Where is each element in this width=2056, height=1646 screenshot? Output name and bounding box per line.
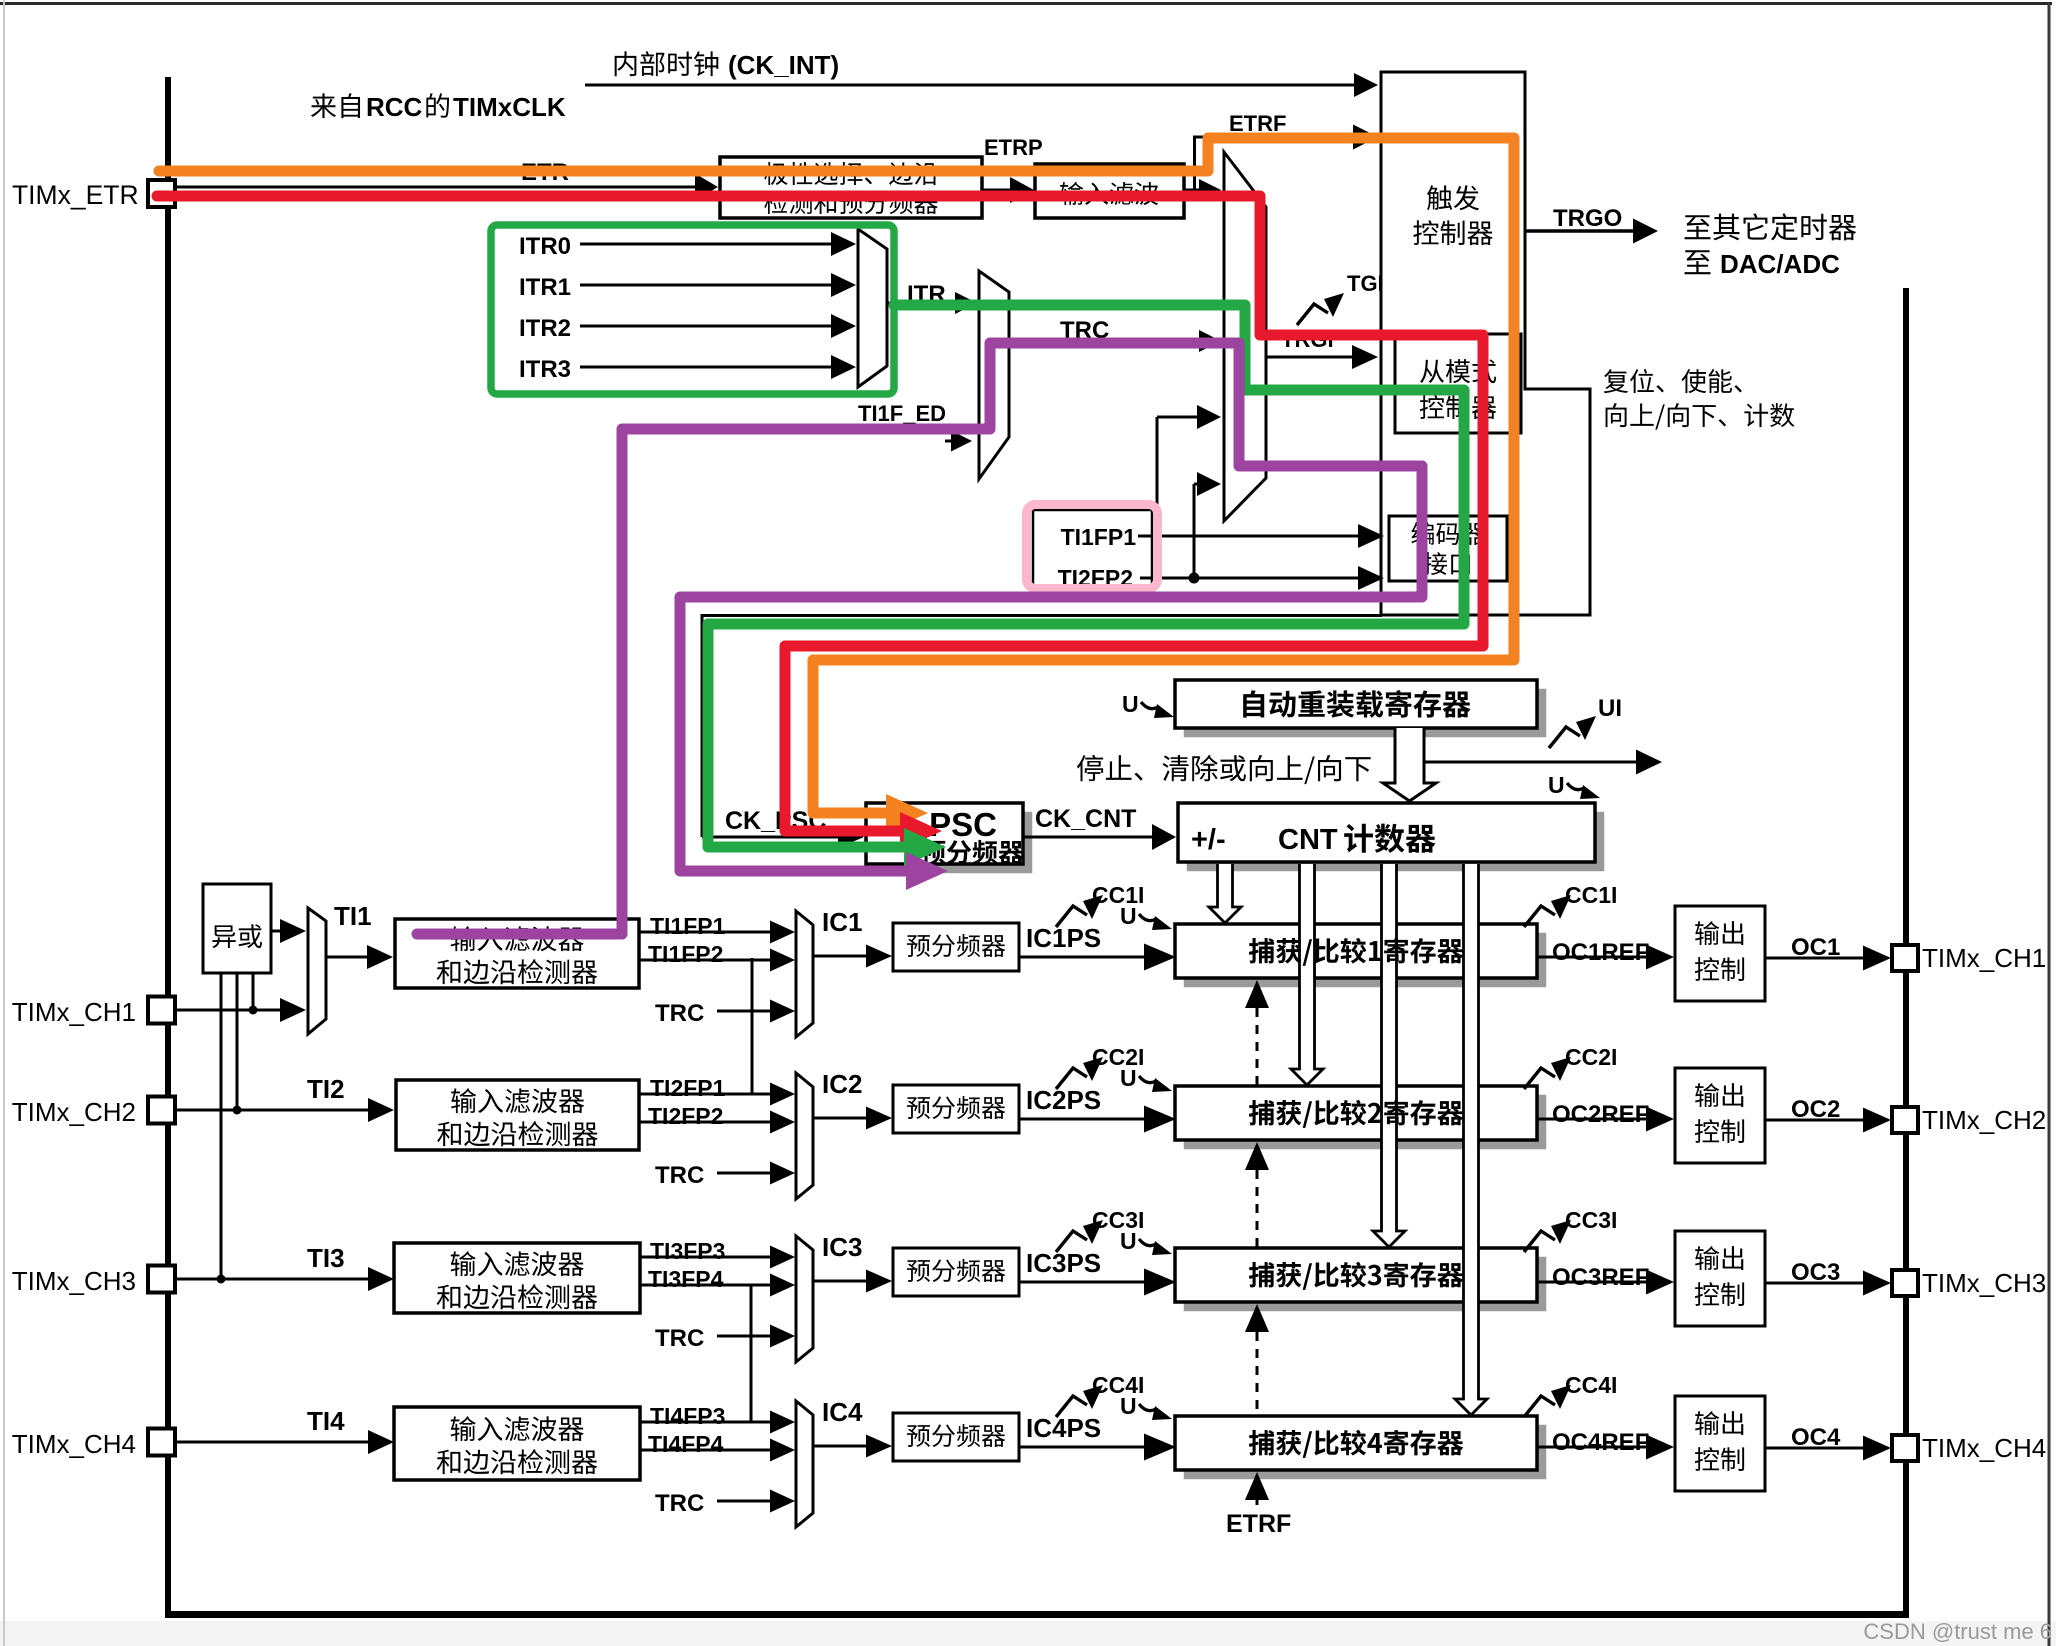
svg-text:ITR0: ITR0	[519, 233, 571, 260]
wire TI2FP1	[639, 1093, 775, 1096]
wire OC3REF	[1537, 1281, 1651, 1284]
highlight red ETRF path	[157, 196, 1483, 831]
wire TI1FP1 to encoder	[1138, 535, 1363, 538]
svg-text:IC1PS: IC1PS	[1026, 923, 1101, 953]
wire IC1PS	[1019, 956, 1149, 959]
svg-text:TIMx_CH3: TIMx_CH3	[1922, 1268, 2046, 1298]
svg-text:TRC: TRC	[655, 1162, 704, 1189]
block input filter edge detector 4	[394, 1407, 640, 1480]
block capture/compare register 4	[1184, 1425, 1546, 1479]
interrupt CC3I left	[1056, 1231, 1087, 1252]
highlight pink box	[1027, 505, 1158, 589]
svg-text:TI1F_ED: TI1F_ED	[858, 401, 946, 426]
svg-text:TI4: TI4	[307, 1406, 345, 1436]
svg-text:RCC: RCC	[366, 92, 423, 122]
svg-text:TI1: TI1	[334, 901, 372, 931]
text capture/compare register 2	[1249, 1100, 1274, 1125]
wire TI2FP2	[639, 1121, 775, 1124]
block input filter edge detector 1	[395, 919, 639, 988]
svg-text:U: U	[1120, 1393, 1137, 1419]
block input filter edge detector 2	[396, 1080, 639, 1150]
wire TI3FP3	[640, 1256, 775, 1259]
highlight purple TI1FP1 path	[417, 343, 1422, 934]
wire TRGO	[1525, 229, 1638, 233]
block prescaler row 4	[893, 1413, 1019, 1461]
block capture/compare register 2	[1184, 1095, 1546, 1149]
block slave mode controller	[1395, 334, 1521, 433]
svg-text:OC1REF: OC1REF	[1552, 939, 1649, 966]
wire TI1 pin to mux	[175, 1009, 285, 1012]
svg-text:TI1FP1: TI1FP1	[650, 913, 726, 939]
block encoder interface	[1389, 516, 1507, 581]
wire IC2	[813, 1117, 871, 1120]
svg-text:UI: UI	[1598, 695, 1622, 722]
mux IC3 selector	[796, 1236, 813, 1362]
svg-text:OC4REF: OC4REF	[1552, 1429, 1649, 1456]
text capture/compare register 1	[1249, 938, 1274, 963]
svg-text:IC4PS: IC4PS	[1026, 1413, 1101, 1443]
block output control 3	[1675, 1231, 1765, 1326]
wire OC4	[1765, 1447, 1868, 1450]
interrupt CC1I right	[1524, 906, 1555, 927]
svg-text:IC3: IC3	[822, 1232, 862, 1262]
wire TRC row 1	[717, 1010, 775, 1013]
wire TI1FP2	[639, 959, 775, 962]
svg-text:TI2: TI2	[307, 1074, 345, 1104]
right bus wire	[1903, 288, 1909, 1616]
svg-text:CNT: CNT	[1278, 824, 1338, 856]
wire ITR2	[580, 325, 836, 328]
svg-text:TGI: TGI	[1347, 271, 1384, 296]
wire ITR to TRC mux	[887, 302, 960, 305]
interrupt CC1I left	[1056, 906, 1087, 927]
svg-text:TRC: TRC	[655, 1325, 704, 1352]
svg-text:TIMx_CH4: TIMx_CH4	[1922, 1433, 2046, 1463]
block prescaler row 1	[893, 923, 1019, 971]
text capture/compare register 4	[1249, 1430, 1274, 1455]
pin TIMx_CH1 right	[1892, 945, 1918, 971]
label to DAC/ADC	[1685, 250, 1711, 274]
interrupt CC4I right	[1524, 1396, 1555, 1417]
junction dot	[1189, 573, 1200, 584]
wire OC3	[1765, 1282, 1868, 1285]
block input filter	[1035, 164, 1184, 218]
svg-text:CK_CNT: CK_CNT	[1035, 805, 1136, 833]
wire update event	[1424, 761, 1641, 764]
svg-text:TIMx_CH3: TIMx_CH3	[12, 1266, 136, 1296]
wire ETRF into trigger mux	[1196, 189, 1204, 192]
svg-text:TIMxCLK: TIMxCLK	[453, 92, 566, 122]
wire TI1FP1	[639, 931, 775, 934]
block input filter edge detector 3	[394, 1243, 640, 1313]
wire TRC row 4	[717, 1500, 775, 1503]
svg-text:CC2I: CC2I	[1565, 1044, 1617, 1070]
wire ETRP	[982, 189, 1015, 192]
wire IC3PS	[1019, 1281, 1149, 1284]
svg-text:PSC: PSC	[929, 806, 997, 843]
label to other timers	[1685, 215, 1711, 239]
hollow arrow CNT to capture 1	[1209, 864, 1241, 923]
svg-text:ITR2: ITR2	[519, 315, 571, 342]
svg-text:U: U	[1120, 903, 1137, 929]
svg-text:TIMx_CH1: TIMx_CH1	[1922, 943, 2046, 973]
label internal clock CK_INT	[615, 51, 637, 76]
svg-text:TI3: TI3	[307, 1243, 345, 1273]
svg-text:IC2PS: IC2PS	[1026, 1085, 1101, 1115]
block capture/compare register 1	[1184, 933, 1546, 987]
wire XOR taps	[220, 973, 223, 1279]
svg-text:TI3FP3: TI3FP3	[650, 1238, 725, 1264]
svg-text:TI4FP4: TI4FP4	[648, 1431, 724, 1457]
svg-text:ITR1: ITR1	[519, 274, 571, 301]
svg-text:TI3FP4: TI3FP4	[648, 1266, 724, 1292]
wire TRC row 2	[717, 1172, 775, 1175]
wire TI2FP2 riser to mux	[1156, 417, 1159, 536]
pin TIMx_ETR	[148, 180, 175, 207]
wire OC1	[1765, 957, 1868, 960]
wire IC4	[813, 1445, 871, 1448]
frame right border	[2048, 3, 2051, 1646]
svg-text:TI4FP3: TI4FP3	[650, 1403, 725, 1429]
svg-text:TI1FP1: TI1FP1	[1061, 524, 1137, 550]
block auto-reload register	[1184, 689, 1546, 737]
frame top border	[0, 2, 2052, 5]
wire TI3	[175, 1278, 373, 1281]
block CNT counter	[1187, 812, 1604, 871]
svg-text:TI2FP2: TI2FP2	[648, 1103, 723, 1129]
wire IC2PS	[1019, 1118, 1149, 1121]
wire ITR1	[580, 284, 836, 287]
pin TIMx_CH3 right	[1892, 1270, 1918, 1296]
svg-text:+/-: +/-	[1191, 824, 1226, 856]
highlight green box ITR	[491, 225, 894, 394]
svg-text:CC4I: CC4I	[1565, 1372, 1617, 1398]
highlight green ITR path	[708, 305, 1464, 847]
svg-text:OC3REF: OC3REF	[1552, 1264, 1649, 1291]
mux IC4 selector	[796, 1401, 813, 1527]
svg-text:CC1I: CC1I	[1565, 882, 1617, 908]
svg-text:ITR3: ITR3	[519, 356, 571, 383]
svg-text:OC2REF: OC2REF	[1552, 1101, 1649, 1128]
box TI1FP1/TI2FP2	[1033, 510, 1152, 586]
block prescaler row 2	[893, 1085, 1019, 1133]
block capture/compare register 3	[1184, 1257, 1546, 1311]
svg-text:ETRF: ETRF	[1226, 1510, 1291, 1538]
svg-text:DAC/ADC: DAC/ADC	[1720, 249, 1840, 279]
wire TI1F_ED	[945, 440, 956, 443]
wire ITR3	[580, 366, 836, 369]
block prescaler row 3	[893, 1248, 1019, 1296]
label reset enable up/down count	[1604, 369, 1628, 393]
block polarity/edge-detect/prescaler	[720, 157, 982, 218]
wire OC4REF	[1537, 1446, 1651, 1449]
wire TI4FP4	[640, 1449, 775, 1452]
mux IC1 selector	[796, 911, 813, 1037]
wire TRC to slave mux	[1009, 340, 1204, 343]
dashed wire ETRF to capture registers	[1245, 980, 1269, 1008]
svg-text:U: U	[1548, 772, 1565, 798]
mux trigger selection	[1224, 152, 1266, 521]
wire ITR0	[580, 243, 836, 246]
wire ETRF elbow and to trigger controller	[1184, 189, 1196, 192]
wire TRGI	[1266, 356, 1357, 359]
svg-text:TIMx_CH1: TIMx_CH1	[12, 997, 136, 1027]
svg-text:IC4: IC4	[822, 1397, 863, 1427]
wire XOR to TI1 mux	[271, 930, 285, 933]
svg-text:TRC: TRC	[655, 1000, 704, 1027]
wire IC1	[813, 955, 871, 958]
wire TRC row 3	[717, 1335, 775, 1338]
mux TI1 xor selector	[308, 908, 326, 1034]
svg-text:TRGO: TRGO	[1553, 205, 1622, 232]
pin TIMx_CH4 right	[1892, 1435, 1918, 1461]
left bus wire	[165, 77, 171, 1616]
wire TI1FP1 riser to mux	[1193, 484, 1196, 578]
wire TI1 mux out	[326, 956, 372, 959]
wire CK_PSC from trigger controller to PSC	[702, 614, 1382, 617]
interrupt CC4I left	[1056, 1396, 1087, 1417]
hollow arrow ARR to CNT	[1383, 728, 1436, 801]
interrupt CC2I left	[1056, 1068, 1087, 1089]
svg-text:ETRP: ETRP	[984, 135, 1043, 160]
mux ITR selector	[858, 229, 887, 387]
block XOR	[203, 884, 271, 973]
interrupt TGI	[1297, 304, 1328, 325]
wire IC3	[813, 1280, 871, 1283]
hollow arrow CNT to capture 4	[1455, 864, 1487, 1415]
wire TI4	[175, 1441, 373, 1444]
svg-text:U: U	[1120, 1065, 1137, 1091]
interrupt CC2I right	[1524, 1068, 1555, 1089]
svg-text:CSDN @trust me 6: CSDN @trust me 6	[1863, 1619, 2052, 1644]
wire OC1REF	[1537, 956, 1651, 959]
mux TRC selector	[979, 271, 1009, 479]
hollow arrow CNT to capture 3	[1373, 864, 1405, 1247]
svg-text:ETRF: ETRF	[1229, 111, 1286, 136]
svg-text:TIMx_CH2: TIMx_CH2	[12, 1097, 136, 1127]
pin TIMx_CH2 right	[1892, 1107, 1918, 1133]
interrupt CC3I right	[1524, 1231, 1555, 1252]
interrupt UI	[1549, 727, 1580, 748]
block PSC prescaler	[875, 812, 1032, 873]
block output control 2	[1675, 1068, 1765, 1163]
svg-text:IC1: IC1	[822, 907, 862, 937]
svg-text:TI2FP1: TI2FP1	[650, 1075, 726, 1101]
highlight orange ETR path	[159, 138, 1514, 813]
svg-text:IC2: IC2	[822, 1069, 862, 1099]
wire TI2FP2 to encoder	[1140, 577, 1363, 580]
block output control 1	[1675, 906, 1765, 1001]
wire ETR	[175, 186, 700, 189]
bottom frame wire	[165, 1611, 1909, 1618]
mux IC2 selector	[796, 1073, 813, 1199]
svg-text:TIMx_CH2: TIMx_CH2	[1922, 1105, 2046, 1135]
svg-text:TRC: TRC	[655, 1490, 704, 1517]
block trigger controller outline	[1381, 72, 1590, 615]
hollow arrow CNT to capture 2	[1291, 864, 1323, 1085]
wire OC2	[1765, 1119, 1868, 1122]
block output control 4	[1675, 1396, 1765, 1491]
label stop/clear/up-down	[1077, 755, 1103, 781]
label from-RCC TIMxCLK	[311, 93, 336, 118]
svg-text:TIMx_ETR: TIMx_ETR	[12, 180, 139, 210]
svg-text:(CK_INT): (CK_INT)	[728, 50, 839, 80]
wire OC2REF	[1537, 1118, 1651, 1121]
wire IC4PS	[1019, 1446, 1149, 1449]
svg-text:CC3I: CC3I	[1565, 1207, 1617, 1233]
svg-text:TIMx_CH4: TIMx_CH4	[12, 1429, 136, 1459]
svg-text:U: U	[1120, 1228, 1137, 1254]
wire CK_CNT	[1023, 836, 1157, 839]
wire TI1FP2/TI2FP1 cross	[751, 958, 754, 1093]
svg-text:IC3PS: IC3PS	[1026, 1248, 1101, 1278]
wire TI3FP4/TI4FP3 cross	[750, 1285, 753, 1421]
wire CK_INT to trigger controller	[585, 84, 1359, 87]
frame left border	[3, 0, 5, 1646]
svg-text:TI1FP2: TI1FP2	[648, 941, 723, 967]
wire TI4FP3	[640, 1421, 775, 1424]
bottom band	[0, 1621, 2056, 1646]
text capture/compare register 3	[1249, 1262, 1274, 1287]
wire TI2	[175, 1109, 373, 1112]
svg-text:U: U	[1122, 691, 1139, 717]
wire TI3FP4	[640, 1284, 775, 1287]
